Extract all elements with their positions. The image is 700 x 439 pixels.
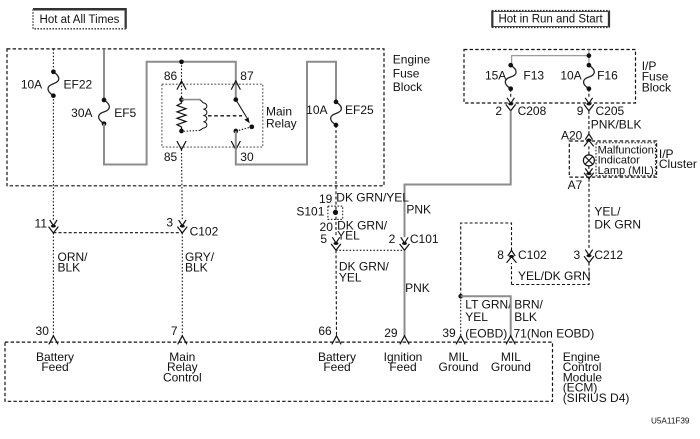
wire: DK GRN/YEL from EF25 through splice S101 bbox=[335, 125, 337, 237]
connector C101 pin 5 bbox=[320, 232, 341, 251]
wire: YEL/DK GRN from A7 to connector C212 bbox=[588, 179, 590, 249]
wire: PNK from C101 to ECM pin 29 bbox=[404, 250, 406, 336]
splice S101 bbox=[328, 206, 343, 219]
svg-text:30A: 30A bbox=[71, 106, 92, 120]
wire: EF5 output loop to main relay feed bus bbox=[104, 62, 236, 165]
svg-text:Relay: Relay bbox=[266, 116, 297, 130]
svg-text:Feed: Feed bbox=[323, 360, 350, 374]
svg-text:Block: Block bbox=[393, 80, 423, 94]
svg-text:10A: 10A bbox=[560, 68, 581, 82]
pin 86 terminal chevron bbox=[177, 81, 186, 90]
ECM pin 29 function label bbox=[384, 350, 423, 374]
I/P fuse block label bbox=[642, 59, 672, 95]
svg-text:Hot in Run and Start: Hot in Run and Start bbox=[498, 14, 603, 26]
relay label: Main Relay bbox=[266, 105, 297, 131]
svg-text:C101: C101 bbox=[410, 232, 439, 246]
svg-text:Hot at All Times: Hot at All Times bbox=[40, 14, 120, 26]
wire: relay pin 30 output to fuse EF25 bbox=[236, 62, 336, 165]
Malfunction Indicator Lamp (MIL) symbol bbox=[583, 155, 594, 166]
relay contact to pin 30 (dotted) bbox=[233, 127, 251, 134]
wire: BRN/BLK branch to ECM pin 71 bbox=[461, 296, 511, 336]
svg-text:2: 2 bbox=[389, 232, 396, 246]
svg-text:F13: F13 bbox=[523, 68, 544, 82]
pin 30 terminal chevron bbox=[231, 141, 240, 150]
svg-text:C102: C102 bbox=[190, 224, 219, 238]
svg-text:Lamp (MIL): Lamp (MIL) bbox=[598, 165, 654, 177]
svg-text:9: 9 bbox=[577, 104, 584, 118]
pin 87 terminal chevron bbox=[231, 81, 240, 90]
relay coil resistor element bbox=[177, 97, 186, 133]
engine fuse block (dashed enclosure) bbox=[7, 49, 384, 186]
MIL text label bbox=[598, 144, 654, 177]
svg-text:Cluster: Cluster bbox=[659, 157, 697, 171]
svg-text:Feed: Feed bbox=[389, 360, 416, 374]
svg-text:8: 8 bbox=[497, 248, 504, 262]
svg-text:PNK: PNK bbox=[406, 203, 431, 217]
ECM pin 66 terminal chevron bbox=[332, 336, 341, 345]
svg-text:66: 66 bbox=[318, 324, 332, 338]
svg-text:YEL/DK GRN: YEL/DK GRN bbox=[518, 269, 591, 283]
svg-text:30: 30 bbox=[240, 150, 254, 164]
wire: hot feed bus inside I/P fuse block bbox=[512, 50, 589, 66]
MIL splice junction node bbox=[458, 294, 463, 299]
svg-text:(EOBD): (EOBD) bbox=[465, 326, 507, 340]
svg-text:11: 11 bbox=[35, 216, 48, 230]
svg-text:Control: Control bbox=[163, 370, 202, 384]
svg-text:7: 7 bbox=[171, 324, 178, 338]
ECM pin 39 terminal chevron bbox=[456, 336, 465, 345]
wire: DK GRN/YEL from C101 to ECM pin 66 bbox=[335, 250, 338, 336]
svg-text:Ground: Ground bbox=[438, 360, 478, 374]
svg-text:BLK: BLK bbox=[514, 310, 537, 324]
wire: F16 output to connector C205 bbox=[588, 89, 590, 98]
svg-text:C212: C212 bbox=[594, 248, 623, 262]
connector C208 pin 2 bbox=[495, 98, 546, 118]
svg-text:87: 87 bbox=[240, 69, 254, 83]
I/P cluster label bbox=[659, 147, 697, 171]
relay switch contact node bbox=[249, 124, 254, 129]
main relay enclosure bbox=[162, 84, 263, 147]
svg-text:BLK: BLK bbox=[185, 260, 208, 274]
ECM enclosure (dashed) bbox=[5, 342, 553, 401]
I/P fuse block (dashed enclosure) bbox=[464, 50, 636, 104]
svg-text:29: 29 bbox=[384, 326, 398, 340]
wire: MIL lamp to pin A7 bbox=[588, 166, 590, 169]
wire: feed tap down to relay pin 86 bbox=[181, 62, 183, 100]
cluster pin A7 chevrons bbox=[584, 168, 594, 178]
ECM pin 30 terminal chevron bbox=[49, 336, 58, 345]
svg-text:U5A11F39: U5A11F39 bbox=[651, 417, 690, 426]
I/P cluster (dashed enclosure) bbox=[569, 141, 656, 177]
junction node: relay coil feed tap bbox=[179, 59, 184, 64]
ECM pin 71 function label bbox=[491, 350, 531, 374]
ECM pin 7 terminal chevron bbox=[178, 336, 187, 345]
wire: ORN/BLK from C102 to ECM pin 30 bbox=[52, 233, 54, 336]
svg-text:DK GRN/YEL: DK GRN/YEL bbox=[336, 190, 409, 204]
wire: riser below connector C102 pin 8 bbox=[511, 263, 513, 285]
header label: Hot in Run and Start bbox=[492, 11, 609, 28]
fuse F16 bbox=[584, 63, 595, 91]
svg-text:30: 30 bbox=[36, 324, 50, 338]
svg-text:10A: 10A bbox=[21, 78, 42, 92]
wire: LT GRN/YEL to ECM pin 39 bbox=[460, 296, 462, 336]
svg-text:Feed: Feed bbox=[41, 360, 68, 374]
svg-text:85: 85 bbox=[164, 150, 178, 164]
svg-text:Block: Block bbox=[642, 81, 672, 95]
ECM pin 39 function label bbox=[438, 350, 478, 374]
wire label LT GRN/YEL (EOBD) bbox=[465, 298, 512, 341]
MIL text box (dotted) bbox=[596, 143, 655, 176]
wire: A20 to MIL lamp bbox=[588, 146, 590, 155]
wire: GRY/BLK from C102 to ECM pin 7 bbox=[181, 233, 183, 336]
svg-text:EF5: EF5 bbox=[114, 106, 136, 120]
svg-text:EF22: EF22 bbox=[64, 78, 93, 92]
svg-text:(SIRIUS D4): (SIRIUS D4) bbox=[563, 391, 630, 405]
svg-text:PNK: PNK bbox=[405, 281, 430, 295]
svg-text:YEL: YEL bbox=[337, 228, 360, 242]
svg-text:5: 5 bbox=[320, 232, 327, 246]
svg-text:A7: A7 bbox=[568, 178, 583, 192]
connector C205 pin 9 bbox=[577, 98, 625, 118]
connector C212 pin 3 bbox=[574, 248, 624, 263]
wire label BRN/BLK (Non EOBD) bbox=[514, 298, 543, 324]
svg-text:3: 3 bbox=[574, 248, 581, 262]
svg-text:YEL: YEL bbox=[339, 270, 362, 284]
svg-text:C205: C205 bbox=[596, 104, 625, 118]
ECM pin 71 terminal chevron bbox=[506, 336, 515, 345]
svg-text:PNK/BLK: PNK/BLK bbox=[591, 118, 642, 132]
connector C102 pin 8 bbox=[497, 248, 547, 263]
wire: PNK from C208 to connector C101 bbox=[405, 111, 511, 238]
junction node: F16 feed bbox=[587, 53, 592, 58]
relay coil winding element bbox=[182, 100, 207, 132]
connector C102 pin 3 bbox=[166, 215, 218, 238]
ECM pin 7 function label bbox=[163, 350, 202, 385]
svg-text:39: 39 bbox=[442, 326, 456, 340]
svg-text:C102: C102 bbox=[518, 248, 547, 262]
svg-text:C208: C208 bbox=[518, 104, 547, 118]
wire label DK GRN/YEL (lower) bbox=[339, 260, 390, 285]
pin 85 terminal chevron bbox=[177, 141, 186, 150]
svg-text:2: 2 bbox=[495, 104, 502, 118]
cluster pin A20 chevrons bbox=[585, 134, 592, 140]
fuse F13 bbox=[505, 63, 516, 91]
svg-text:71(Non EOBD): 71(Non EOBD) bbox=[514, 326, 595, 340]
wire label YEL/DK GRN (vertical run) bbox=[594, 205, 641, 232]
ECM label bbox=[563, 350, 630, 405]
fuse EF5 bbox=[99, 98, 110, 126]
wire: YEL/DK GRN from C212 down and left bbox=[512, 263, 590, 285]
header label: Hot at All Times bbox=[33, 9, 126, 29]
svg-text:Ground: Ground bbox=[491, 360, 531, 374]
svg-text:15A: 15A bbox=[485, 68, 506, 82]
svg-text:BLK: BLK bbox=[58, 260, 81, 274]
svg-text:YEL/: YEL/ bbox=[594, 205, 621, 219]
wire: hot feed to fuse EF5 bbox=[103, 49, 105, 100]
wire: F13 output to connector C208 bbox=[510, 89, 512, 98]
svg-text:Engine: Engine bbox=[393, 53, 431, 67]
ECM pin 30 function label bbox=[36, 350, 74, 374]
svg-text:3: 3 bbox=[166, 215, 173, 229]
svg-text:YEL: YEL bbox=[465, 310, 488, 324]
relay actuator linkage (dashed) bbox=[208, 115, 242, 117]
connector C101 joint line (dotted) bbox=[336, 249, 405, 251]
svg-text:S101: S101 bbox=[296, 205, 324, 219]
svg-text:Fuse: Fuse bbox=[393, 66, 420, 80]
wire: from C102 pin 8 up, left and down to MIL splice bbox=[461, 223, 512, 295]
svg-text:10A: 10A bbox=[306, 103, 327, 117]
wire label GRY/BLK bbox=[185, 250, 215, 275]
svg-text:DK GRN: DK GRN bbox=[594, 217, 641, 231]
wire label DK GRN/YEL (below S101) bbox=[337, 219, 388, 243]
fuse EF22 bbox=[48, 69, 59, 98]
wire: hot feed to fuse EF22 bbox=[52, 49, 54, 72]
connector C101 pin 2 bbox=[389, 232, 439, 251]
connector C102 joint line (dashed) bbox=[53, 232, 182, 234]
svg-text:86: 86 bbox=[164, 69, 178, 83]
svg-text:EF25: EF25 bbox=[345, 103, 374, 117]
fuse EF25 bbox=[331, 100, 342, 128]
svg-text:F16: F16 bbox=[597, 68, 618, 82]
wire: ORN/BLK from EF22 to connector C102 bbox=[52, 96, 54, 220]
ECM pin 29 terminal chevron bbox=[400, 336, 409, 345]
relay switch arm (pin 87 to contact) bbox=[233, 97, 249, 123]
engine fuse block label bbox=[393, 53, 431, 94]
wire: relay pin 85 control to connector C102 bbox=[181, 150, 184, 220]
connector C102 pin 11 bbox=[35, 216, 59, 233]
wire label ORN/BLK bbox=[58, 250, 89, 275]
ECM pin 66 function label bbox=[318, 350, 356, 374]
wire: PNK/BLK from C205 to I/P cluster pin A20 bbox=[588, 111, 590, 134]
